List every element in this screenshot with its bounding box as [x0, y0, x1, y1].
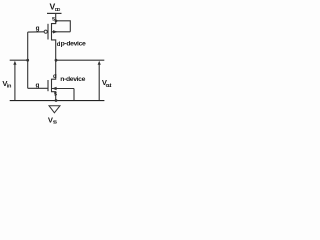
- wire p-device body lead: [52, 31, 70, 33]
- n-device body arrow pointing toward channel: [52, 87, 57, 90]
- node Vout label: [102, 78, 112, 89]
- junction input node: [26, 59, 29, 62]
- node Vin label: [2, 79, 12, 89]
- Vin arrow head: [13, 61, 16, 65]
- svg-text:in: in: [7, 83, 12, 89]
- junction output node: [55, 59, 58, 62]
- svg-text:n-device: n-device: [60, 76, 85, 83]
- node VSS label: [48, 116, 57, 125]
- svg-text:out: out: [106, 83, 112, 89]
- Vout arrow head: [98, 61, 101, 65]
- wire Vin measurement line: [14, 64, 16, 101]
- svg-text:g: g: [36, 25, 40, 32]
- ground symbol triangle: [49, 106, 60, 113]
- svg-text:g: g: [36, 82, 40, 89]
- junction n-source to rail: [55, 99, 58, 102]
- svg-text:SS: SS: [53, 119, 57, 124]
- wire input gate bus: [27, 32, 29, 88]
- wire n-device body lead: [52, 88, 75, 90]
- svg-text:d: d: [53, 74, 57, 80]
- wire VDD down through p-device channel jogs to output node and n-device channel jogs to VSS rail: [52, 13, 56, 100]
- wire input node line: [10, 59, 28, 61]
- n-device gate bar: [47, 80, 49, 91]
- power rail VSS bottom: [10, 100, 105, 102]
- wire p-device gate lead: [28, 31, 44, 33]
- p-device gate bubble: [44, 30, 47, 33]
- wire output node line: [56, 59, 105, 61]
- power rail VDD bar: [47, 12, 62, 14]
- wire Vout measurement line: [98, 64, 100, 101]
- node VDD label: [50, 2, 61, 13]
- wire p-device body-to-source loop: [56, 21, 70, 32]
- wire n-device body-to-VSS loop: [73, 89, 75, 101]
- svg-text:p-device: p-device: [61, 40, 86, 47]
- p-device gate bar: [47, 24, 49, 40]
- svg-text:DD: DD: [55, 7, 60, 12]
- p-device body arrow pointing away from channel: [53, 30, 58, 33]
- wire n-device gate lead: [28, 87, 48, 89]
- junction p-device source/body: [55, 20, 58, 23]
